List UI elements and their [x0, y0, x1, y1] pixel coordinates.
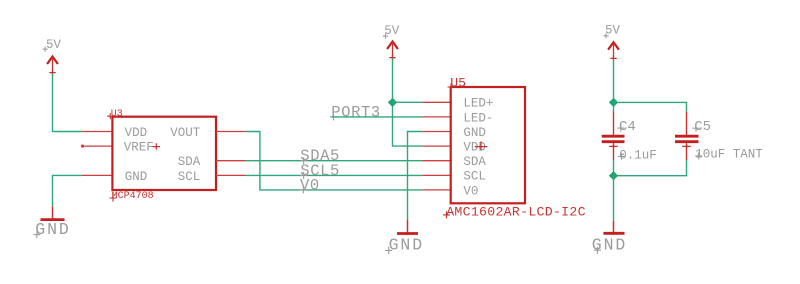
value label AMC1602AR-LCD-I2C: [443, 204, 586, 219]
pin SDA (U3): [216, 160, 246, 162]
svg-text:C5: C5: [694, 119, 711, 135]
svg-text:GND: GND: [463, 126, 486, 140]
svg-text:VREF: VREF: [124, 141, 154, 155]
svg-text:SCL: SCL: [463, 170, 486, 184]
+5V supply symbol (right): [603, 24, 620, 62]
svg-text:U5: U5: [450, 75, 466, 90]
svg-text:SCL: SCL: [178, 170, 201, 184]
svg-text:VDD: VDD: [125, 126, 148, 140]
value label 10uF TANT: [695, 148, 763, 162]
value label MCP4708: [109, 191, 153, 202]
designator U5: [448, 75, 467, 90]
junction at 5V/LED+: [388, 98, 397, 107]
pin LED+ (U5): [422, 101, 452, 103]
pin VOUT (U3): [216, 131, 246, 133]
designator U3: [107, 109, 123, 120]
net label PORT3: [330, 104, 381, 122]
pin V0 (U5): [422, 189, 452, 191]
svg-text:SDA: SDA: [178, 155, 201, 169]
svg-text:LED-: LED-: [463, 111, 493, 125]
wire U3 GND to ground: [53, 175, 83, 206]
label C4: [617, 119, 636, 135]
pin VREF (U3): [81, 145, 114, 148]
wire +5V to U5 VDD: [393, 59, 423, 147]
wire VOUT to V0 net: [246, 132, 423, 190]
value label 0.1uF: [618, 148, 657, 162]
junction top (5V node): [609, 98, 618, 107]
pin LED- (U5): [422, 116, 452, 118]
svg-text:AMC1602AR-LCD-I2C: AMC1602AR-LCD-I2C: [446, 204, 586, 219]
capacitor C5: [675, 111, 699, 160]
svg-text:SDA: SDA: [463, 155, 486, 169]
svg-text:10uF TANT: 10uF TANT: [695, 148, 763, 162]
wire junction to LED+: [393, 101, 423, 103]
net label V0: [300, 177, 320, 195]
pin VDD (U3): [82, 131, 114, 133]
svg-text:GND: GND: [389, 235, 424, 254]
origin cross U5: [475, 141, 488, 150]
capacitor C4: [602, 111, 625, 160]
wire net PORT3 to LED-: [332, 116, 423, 118]
ground symbol (left): [33, 206, 70, 238]
label C5: [693, 119, 712, 135]
svg-text:U3: U3: [111, 109, 123, 120]
IC U5 body: [451, 87, 525, 203]
wire ground node to GND: [613, 176, 615, 221]
origin cross U3: [153, 143, 160, 149]
wire U5 GND to ground: [408, 132, 423, 220]
wire +5V down to C4: [613, 59, 615, 111]
svg-text:GND: GND: [125, 170, 148, 184]
svg-text:MCP4708: MCP4708: [112, 191, 154, 202]
wire net SDA5: [246, 160, 423, 162]
svg-text:5V: 5V: [46, 38, 62, 52]
ground symbol (right): [592, 221, 627, 255]
wire net SCL5: [246, 174, 423, 176]
net label SDA5: [300, 147, 340, 165]
wire 5V node to C5: [614, 102, 687, 111]
wire C5 bottom to ground node: [614, 160, 687, 176]
svg-text:0.1uF: 0.1uF: [619, 148, 657, 162]
+5V supply symbol (left): [43, 38, 62, 76]
IC U3 body: [112, 117, 216, 190]
pin SCL (U3): [216, 174, 246, 176]
pin SCL (U5): [422, 174, 452, 176]
pin GND (U5): [422, 131, 452, 133]
net label SCL5: [300, 162, 340, 180]
wire C4 bottom to ground node: [613, 160, 615, 176]
+5V supply symbol (middle): [383, 24, 400, 61]
pin SDA (U5): [422, 160, 452, 162]
svg-text:VOUT: VOUT: [170, 126, 201, 140]
wire +5V to U3 VDD: [53, 74, 83, 132]
svg-text:C4: C4: [619, 119, 636, 135]
pin GND (U3): [82, 174, 114, 176]
svg-text:LED+: LED+: [463, 97, 493, 111]
junction bottom (ground node): [609, 171, 618, 180]
svg-text:PORT3: PORT3: [331, 104, 381, 122]
pin VDD (U5): [422, 145, 452, 147]
ground symbol (middle): [385, 220, 424, 255]
svg-text:VDD: VDD: [463, 141, 486, 155]
svg-text:V0: V0: [463, 184, 478, 198]
svg-text:GND: GND: [35, 220, 70, 239]
